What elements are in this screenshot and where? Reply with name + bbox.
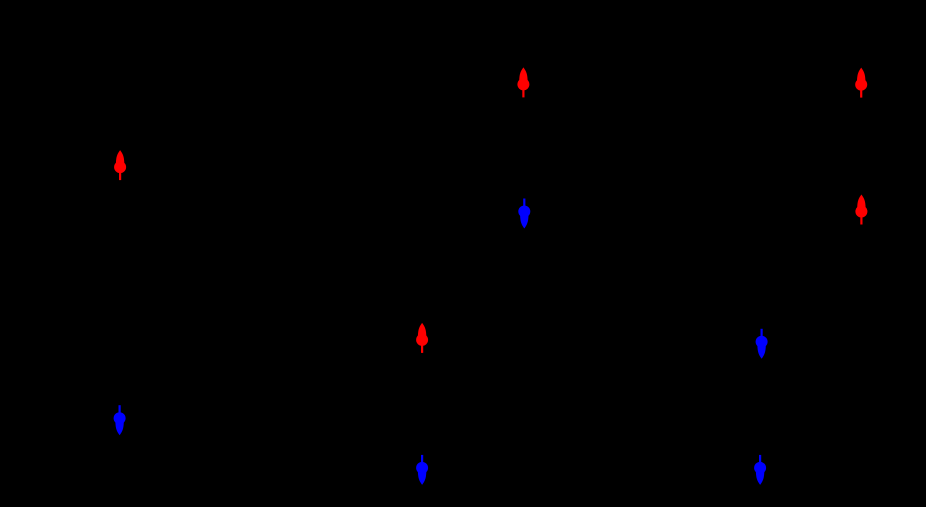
energy level line, right site b lower orbital [735,454,785,456]
energy level line, middle site a lower orbital [498,198,548,200]
energy level line, middle site a upper orbital [498,97,548,99]
energy level line, right site b upper orbital [735,358,785,360]
spin-down electron arrow, right-bottom site upper level [756,329,768,359]
energy level line, right site a lower orbital [836,194,886,196]
spin-up electron arrow, middle-top site [517,67,529,97]
spin-down electron arrow, right-bottom site lower level [754,455,766,485]
energy level line, left site lower orbital [95,404,145,406]
spin-up electron arrow, left site [114,150,126,180]
spin-up electron arrow, right-top site upper level [855,68,867,98]
spin-down electron arrow, middle-bottom site lower level [416,455,428,485]
energy level line, middle site b upper orbital [397,352,447,354]
spin-down electron arrow, middle-top site lower level [518,199,530,229]
spin-up electron arrow, middle-bottom site [416,323,428,353]
energy level line, left site upper orbital [95,179,145,181]
spin-up electron arrow, right-top site lower level [855,195,867,225]
energy level line, middle site b lower orbital [397,454,447,456]
spin-down electron arrow, left site lower row [114,405,126,435]
energy level line, right site a upper orbital [836,97,886,99]
